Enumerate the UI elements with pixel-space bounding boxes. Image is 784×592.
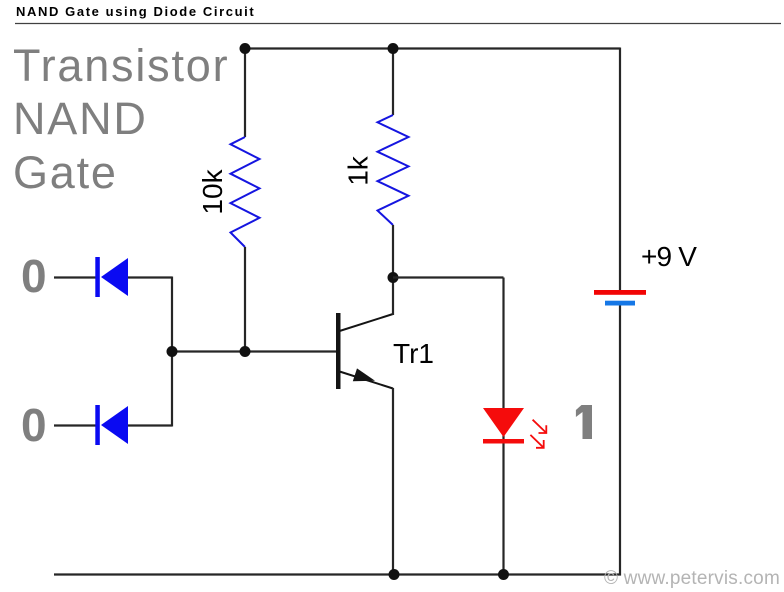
- wire collector vertical: [392, 277, 394, 315]
- junction top rail left: [240, 43, 251, 54]
- resistor R2 1k: [378, 115, 409, 225]
- title underline: [15, 23, 781, 25]
- wire right side lower: [619, 305, 621, 576]
- wire top rail: [245, 47, 620, 49]
- LED light arrow 1: [533, 420, 547, 433]
- diode D1 triangle: [101, 258, 128, 296]
- wire base horizontal: [172, 350, 336, 352]
- wire input stub top: [54, 276, 96, 278]
- wire diode join vertical: [171, 277, 173, 427]
- LED D3 triangle: [483, 408, 524, 437]
- wire collector to LED: [393, 276, 504, 278]
- wire input stub bottom: [54, 424, 96, 426]
- junction collector node: [388, 272, 399, 283]
- diode D2 cathode bar: [95, 405, 100, 445]
- wire LED branch vertical: [502, 278, 504, 576]
- svg-text:NAND: NAND: [13, 93, 148, 144]
- wire 1k top: [392, 48, 394, 116]
- svg-text:10k: 10k: [197, 168, 228, 214]
- wire right side upper: [619, 48, 621, 291]
- junction base node: [240, 346, 251, 357]
- svg-text:NAND Gate using Diode Circuit: NAND Gate using Diode Circuit: [16, 4, 255, 19]
- svg-text:+9 V: +9 V: [641, 241, 697, 272]
- LED light arrow 2: [530, 435, 543, 448]
- wire 1k bottom: [392, 225, 394, 277]
- svg-text:0: 0: [21, 399, 47, 451]
- resistor R1 10k: [231, 137, 260, 247]
- battery B1 negative plate: [605, 301, 635, 306]
- wire bottom rail: [54, 573, 621, 575]
- svg-text:Tr1: Tr1: [393, 338, 434, 369]
- transistor Q1 emitter arrow: [353, 368, 375, 381]
- LED D3 cathode bar: [483, 439, 524, 444]
- svg-text:1k: 1k: [343, 155, 374, 186]
- diode D1 cathode bar: [95, 257, 100, 297]
- transistor Q1 emitter slant: [338, 371, 393, 389]
- junction top rail right: [388, 43, 399, 54]
- wire D1 to node: [128, 276, 172, 278]
- junction bottom LED: [498, 569, 509, 580]
- wire D2 to node: [128, 424, 172, 426]
- label output 1: [576, 405, 592, 439]
- transistor Q1 collector slant: [338, 314, 393, 332]
- svg-text:Gate: Gate: [13, 147, 118, 198]
- battery B1 positive plate: [594, 290, 646, 295]
- svg-text:Transistor: Transistor: [13, 40, 229, 91]
- diode D2 triangle: [101, 406, 128, 444]
- wire emitter vertical: [392, 388, 394, 575]
- svg-text:0: 0: [21, 250, 47, 302]
- wire 10k bottom: [244, 247, 246, 351]
- wire 10k top: [244, 48, 246, 138]
- junction bottom emitter: [389, 569, 400, 580]
- junction diode node: [167, 346, 178, 357]
- transistor Q1 base bar: [336, 313, 341, 389]
- svg-text:© www.petervis.com: © www.petervis.com: [604, 568, 780, 589]
